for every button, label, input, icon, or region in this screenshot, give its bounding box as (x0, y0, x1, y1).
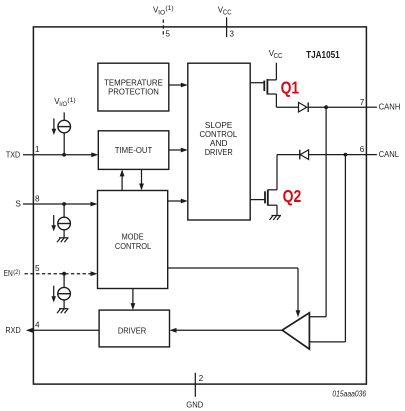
svg-text:DRIVER: DRIVER (205, 148, 233, 157)
svg-text:015aaa036: 015aaa036 (332, 390, 366, 399)
svg-text:IO: IO (158, 9, 165, 16)
wire TEMPERATURE PROTECTION to SLOPE box (169, 83, 188, 88)
pin 1 TXD wire (6, 145, 98, 159)
block MODE CONTROL (98, 191, 168, 289)
svg-text:AND: AND (210, 139, 228, 148)
label VCC at Q1 (269, 49, 283, 60)
node S junction (62, 202, 66, 206)
block DRIVER (99, 310, 169, 347)
svg-text:(1): (1) (165, 5, 173, 12)
svg-text:PROTECTION: PROTECTION (108, 87, 159, 96)
svg-text:7: 7 (360, 98, 365, 107)
block TEMPERATURE PROTECTION (98, 63, 169, 111)
svg-text:3: 3 (229, 30, 234, 39)
ground (below EN current source) (57, 309, 69, 314)
wire CANL node to receiver input (309, 155, 345, 342)
pin 3 VCC stub (top) (226, 17, 228, 37)
svg-text:(1): (1) (67, 97, 75, 104)
svg-text:CC: CC (274, 53, 283, 60)
wire MODE CONTROL to receiver enable (168, 268, 301, 317)
wire receiver output to DRIVER (170, 328, 283, 333)
block TIME-OUT (98, 131, 169, 170)
svg-text:5: 5 (165, 30, 170, 39)
svg-text:TXD: TXD (6, 151, 20, 160)
svg-text:TJA1051: TJA1051 (306, 50, 340, 61)
svg-text:CANH: CANH (379, 103, 401, 112)
block SLOPE CONTROL AND DRIVER (188, 63, 250, 220)
svg-text:TIME-OUT: TIME-OUT (115, 146, 153, 155)
svg-text:DRIVER: DRIVER (118, 326, 146, 335)
node EN junction (62, 272, 66, 276)
transistor Q1 (high-side MOSFET) (250, 63, 276, 107)
svg-text:1: 1 (35, 145, 40, 154)
wire TIME-OUT to MODE CONTROL (up arrow) (120, 169, 125, 190)
svg-text:5: 5 (35, 264, 40, 273)
svg-text:S: S (15, 200, 21, 209)
pin 7 CANH (360, 98, 401, 112)
pin 6 CANL (360, 145, 400, 159)
label VI/O(1) at current source I1 (54, 97, 76, 108)
svg-text:I/O: I/O (59, 101, 67, 108)
node CANL junction (344, 153, 348, 157)
outer IC boundary box (33, 27, 366, 384)
svg-text:CANL: CANL (379, 150, 400, 159)
pin 5 EN dashed wire (25, 264, 98, 276)
svg-text:4: 4 (35, 321, 40, 330)
pin 4 RXD wire (5, 321, 99, 335)
label VCC top (218, 5, 232, 16)
current source I1 (VI/O pull-up on TXD) (52, 112, 71, 154)
svg-text:6: 6 (360, 145, 365, 154)
svg-text:SLOPE: SLOPE (205, 121, 233, 130)
current source I3 (pull-down on EN) (51, 274, 70, 309)
svg-text:8: 8 (35, 194, 40, 203)
svg-text:MODE: MODE (122, 233, 144, 242)
wire MODE CONTROL to DRIVER (131, 289, 136, 311)
pin 5 VIO dashed stub (top) (162, 20, 164, 38)
svg-text:2: 2 (199, 374, 204, 383)
svg-text:TEMPERATURE: TEMPERATURE (104, 79, 163, 88)
svg-text:(2): (2) (13, 269, 20, 276)
node CANH junction (324, 105, 328, 109)
wire TIME-OUT to SLOPE box (169, 148, 188, 153)
current source I2 (pull-down on S) (51, 204, 70, 238)
wire TIME-OUT to MODE CONTROL (down arrow) (139, 169, 144, 190)
wire MODE CONTROL to SLOPE box (168, 199, 188, 204)
label VIO(1) top (153, 5, 174, 16)
diode D1 (CANH) (276, 102, 366, 112)
svg-text:CONTROL: CONTROL (200, 130, 238, 139)
ground (below Q2) (270, 216, 282, 221)
svg-text:RXD: RXD (5, 326, 20, 335)
wire CANH node to receiver input (309, 107, 326, 317)
svg-text:Q2: Q2 (283, 186, 302, 206)
svg-text:GND: GND (186, 400, 203, 409)
pin 8 S wire (15, 194, 97, 208)
node TXD junction (62, 153, 66, 157)
diode D2 (CANL) (277, 150, 366, 160)
label EN(2) (4, 269, 21, 278)
pin 2 GND stub (bottom) (186, 373, 203, 410)
op-amp U1 receiver comparator (282, 313, 309, 349)
svg-text:CONTROL: CONTROL (115, 242, 152, 251)
ground (below S current source) (57, 238, 69, 243)
svg-text:CC: CC (223, 9, 232, 16)
svg-text:EN: EN (4, 269, 13, 278)
transistor Q2 (low-side MOSFET) (250, 155, 277, 216)
svg-text:Q1: Q1 (281, 77, 300, 97)
